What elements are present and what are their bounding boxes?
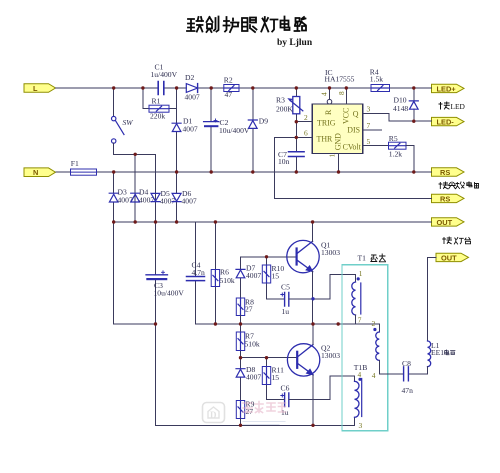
label T1 磁环: [358, 254, 386, 263]
wire: C6 node up to T1B pin4: [330, 376, 355, 400]
svg-text:4148: 4148: [393, 104, 408, 113]
svg-text:15: 15: [272, 373, 280, 382]
T1 secondary winding (to lamp, pins 2-4): [372, 319, 380, 380]
IC pin 1 (GND): [328, 154, 339, 173]
wire: N/ground rail to RS: [114, 171, 432, 173]
wire: middle bus right end down to secondary winding: [378, 324, 380, 332]
svg-text:Q: Q: [353, 110, 359, 119]
capacitor C2 (electrolytic): [204, 88, 250, 172]
T1B feedback winding (pins 4-3): [355, 370, 363, 430]
svg-text:4007: 4007: [183, 125, 198, 134]
svg-text:RS: RS: [440, 168, 450, 177]
svg-text:15: 15: [272, 272, 280, 281]
svg-text:220k: 220k: [150, 112, 165, 121]
resistor R1 (parallel with C1): [143, 88, 177, 121]
capacitor C7: [278, 137, 304, 172]
svg-text:F1: F1: [71, 159, 79, 168]
svg-text:LED: LED: [451, 102, 466, 111]
node: C5/T1 pin1/Q1 emitter junction: [311, 297, 314, 300]
diode D3: [109, 172, 133, 222]
svg-text:5: 5: [367, 137, 371, 146]
fuse F1: [56, 159, 114, 175]
wire: Q2 collector to middle bus: [312, 324, 314, 345]
annotation 接灯管: [443, 237, 471, 244]
svg-text:R2: R2: [224, 76, 233, 85]
svg-text:10u/400V: 10u/400V: [219, 126, 250, 135]
diode D10: [393, 88, 418, 121]
resistor R8: [236, 298, 254, 325]
connector N: [24, 168, 56, 177]
wire: THR to lower RS connector: [274, 137, 431, 198]
resistor R10: [262, 257, 284, 299]
connector LED+: [432, 84, 465, 93]
diode D7: [236, 257, 261, 298]
resistor R5: [389, 134, 414, 172]
svg-text:510k: 510k: [245, 340, 260, 349]
svg-text:1.2k: 1.2k: [389, 150, 402, 159]
svg-text:OUT: OUT: [437, 218, 453, 227]
svg-text:RS: RS: [440, 194, 450, 203]
capacitor C4: [187, 222, 380, 324]
IC pin 4 (reset, with bubble): [320, 88, 332, 104]
svg-text:4: 4: [372, 371, 376, 380]
svg-text:LED+: LED+: [437, 84, 457, 93]
diode D1: [172, 88, 198, 172]
connector OUT (lower): [436, 253, 469, 262]
wire: left drop to middle bus: [114, 222, 156, 324]
variable resistor R3: [276, 88, 303, 122]
svg-text:4007: 4007: [139, 196, 154, 205]
wire: Q2 emitter to bottom rail: [312, 375, 314, 426]
wire: Q1 emitter to middle bus: [312, 272, 314, 325]
T1 primary winding (pins 1-7): [352, 269, 363, 325]
IC U1 HA17555 body: [312, 68, 363, 154]
connector RS (lower): [432, 194, 465, 203]
svg-text:GND: GND: [333, 133, 342, 150]
svg-text:4007: 4007: [118, 196, 133, 205]
svg-text:R3: R3: [276, 96, 285, 105]
svg-text:VCC: VCC: [342, 108, 351, 124]
wire: top rail (L to LED+): [56, 87, 159, 89]
capacitor C5: [281, 283, 313, 317]
connector LED-: [432, 117, 465, 126]
svg-text:N: N: [33, 168, 38, 177]
svg-text:4: 4: [358, 370, 362, 379]
svg-text:C6: C6: [281, 384, 290, 393]
capacitor C8: [402, 359, 414, 395]
svg-text:R5: R5: [389, 134, 398, 143]
annotation 接LED: [439, 102, 466, 111]
diode D8: [236, 358, 261, 401]
svg-text:1u: 1u: [282, 307, 290, 316]
resistor R6: [211, 222, 235, 324]
svg-text:LED-: LED-: [437, 118, 455, 127]
svg-text:3: 3: [359, 421, 363, 430]
capacitor C1: [151, 63, 178, 95]
wire: Q1 collector to OUT bus: [312, 222, 314, 241]
svg-text:8: 8: [337, 91, 346, 95]
svg-text:1: 1: [328, 154, 337, 158]
capacitor C3 (electrolytic): [146, 271, 184, 298]
wire: C3 / bridge column: [155, 222, 157, 425]
svg-text:510k: 510k: [220, 276, 235, 285]
svg-text:R: R: [324, 109, 333, 115]
inductor L1 (EE13): [409, 341, 455, 374]
wire: lower OUT connector to L1: [428, 257, 437, 341]
transistor Q1 (13003): [287, 240, 319, 272]
IC pin 2 stub: [296, 113, 312, 122]
resistor R4: [370, 68, 390, 92]
svg-text:2: 2: [372, 319, 376, 328]
diode D9: [248, 88, 268, 172]
svg-text:200K: 200K: [276, 105, 293, 114]
svg-text:D9: D9: [259, 117, 268, 126]
resistor R2: [224, 76, 239, 100]
wire: OUT bus (bridge + to upper OUT connector): [114, 221, 432, 223]
resistor R7: [236, 324, 260, 358]
svg-text:THR: THR: [317, 134, 334, 143]
svg-text:7: 7: [367, 121, 371, 130]
svg-text:R1: R1: [152, 97, 161, 106]
svg-text:D: D: [210, 410, 217, 420]
watermark (faint): [203, 402, 286, 425]
wire: Q1 base row: [241, 256, 297, 258]
svg-text:10u/400V: 10u/400V: [154, 289, 185, 298]
svg-text:1u/400V: 1u/400V: [151, 70, 178, 79]
svg-text:3: 3: [367, 104, 371, 113]
svg-text:T1: T1: [358, 254, 367, 263]
svg-text:4: 4: [320, 92, 329, 96]
svg-text:7: 7: [358, 316, 362, 325]
wire: SW drop from rail: [113, 88, 115, 116]
svg-text:4.7n: 4.7n: [192, 268, 205, 277]
svg-text:OUT: OUT: [441, 253, 457, 262]
svg-text:TRIG: TRIG: [317, 118, 336, 127]
svg-text:by Ljlun: by Ljlun: [277, 38, 313, 48]
switch SW: [112, 116, 125, 143]
wire: R3/TRIG/THR node vertical: [295, 122, 297, 138]
svg-text:2: 2: [304, 113, 308, 122]
IC pin 3 stub / wire to LED-: [363, 104, 432, 121]
svg-text:C8: C8: [402, 359, 411, 368]
svg-text:DIS: DIS: [347, 126, 360, 135]
resistor R9: [236, 400, 254, 426]
connector L: [24, 84, 56, 93]
wire: bottom rail: [156, 417, 355, 425]
connector OUT (upper): [432, 218, 465, 227]
T1 core box (teal): [342, 265, 388, 431]
svg-text:SW: SW: [123, 118, 134, 127]
svg-text:L: L: [33, 84, 38, 93]
svg-text:27: 27: [245, 305, 253, 314]
diode D5 (cathode down): [151, 189, 175, 222]
svg-text:1.5k: 1.5k: [370, 75, 383, 84]
svg-text:4007: 4007: [182, 197, 197, 206]
wire: Q2 base row: [241, 357, 298, 359]
wire: SW to bridge (down, right, to D4/D5 tops): [114, 143, 156, 154]
annotation 接光敏电阻: [439, 182, 479, 189]
wire: secondary bottom to C8: [379, 360, 403, 374]
svg-text:47: 47: [225, 90, 233, 99]
svg-text:HA17555: HA17555: [325, 75, 355, 84]
svg-text:D2: D2: [185, 73, 194, 82]
svg-text:13003: 13003: [321, 351, 340, 360]
diode D6 (cathode down): [172, 172, 197, 222]
svg-text:4007: 4007: [246, 271, 261, 280]
title 联创护眼灯电路 (drawn strokes): [187, 17, 306, 33]
svg-text:4007: 4007: [246, 373, 261, 382]
wire: C5 node to T1 pin1: [313, 275, 356, 299]
IC pin 8 (vcc): [337, 88, 346, 104]
capacitor C6: [267, 384, 330, 418]
transistor Q2 (13003): [287, 344, 319, 376]
svg-text:10n: 10n: [278, 157, 290, 166]
diode D2: [185, 73, 200, 102]
IC pin 6 stub: [274, 129, 312, 138]
svg-text:CVolt: CVolt: [343, 143, 362, 152]
diode D4: [131, 188, 155, 223]
svg-text:6: 6: [304, 129, 308, 138]
connector RS (upper): [432, 168, 465, 177]
svg-text:1: 1: [359, 269, 363, 278]
svg-text:4007: 4007: [185, 93, 200, 102]
IC pin 5 stub: [363, 137, 389, 146]
svg-text:C5: C5: [281, 283, 290, 292]
svg-text:47n: 47n: [402, 386, 414, 395]
svg-text:13003: 13003: [321, 248, 340, 257]
IC pin 7 stub (DIS, open): [363, 121, 382, 130]
resistor R11: [262, 358, 284, 400]
